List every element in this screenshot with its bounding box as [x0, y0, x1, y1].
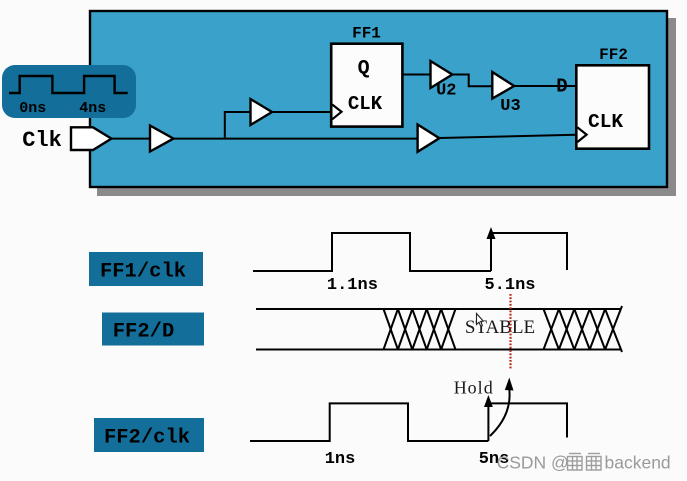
svg-text:CLK: CLK	[588, 111, 623, 133]
watermark CSDN	[497, 453, 671, 473]
buffer U1c	[418, 125, 440, 152]
wire: U2 to U3	[452, 75, 492, 87]
svg-text:5.1ns: 5.1ns	[484, 276, 535, 295]
buffer U3	[492, 72, 514, 99]
svg-text:U3: U3	[500, 97, 520, 116]
wire: Clk port to buffer U1a	[111, 138, 150, 140]
waveform FF2/clk	[250, 403, 488, 441]
buffer U2	[431, 61, 453, 88]
svg-text:FF2: FF2	[599, 46, 628, 64]
svg-text:STABLE: STABLE	[465, 317, 535, 338]
hold curved arrow	[490, 378, 514, 437]
input port Clk (pentagon)	[71, 127, 111, 150]
chip boundary box	[90, 11, 667, 187]
FF2/clk rising edge arrow at 5ns	[484, 395, 493, 441]
waveform FF2/clk high tail	[488, 403, 567, 437]
svg-text:Q: Q	[358, 58, 370, 81]
buffer U1b	[251, 99, 273, 125]
FF2/D crosshatch section 1	[0, 0, 1, 1]
svg-text:1ns: 1ns	[325, 450, 356, 469]
svg-text:Hold: Hold	[454, 378, 494, 398]
flip-flop FF2	[576, 65, 649, 148]
wire: branch up to buffer U1b	[225, 112, 251, 139]
svg-text:4ns: 4ns	[79, 100, 106, 117]
FF2 clock wedge	[577, 127, 586, 142]
waveform FF2/D rails	[256, 309, 621, 350]
wire: FF1 Q to buffer U2	[402, 74, 430, 76]
svg-text:FF2/D: FF2/D	[113, 321, 175, 344]
svg-text:D: D	[556, 76, 567, 98]
wire: U3 to FF2 D	[514, 85, 576, 87]
signal label FF1/clk	[89, 252, 203, 286]
FF1/clk rising edge arrow at 5.1ns	[487, 227, 496, 271]
svg-text:backend: backend	[605, 453, 671, 473]
waveform FF1/clk high tail	[491, 233, 567, 270]
buffer U1a	[150, 126, 174, 152]
svg-text:0ns: 0ns	[19, 100, 46, 117]
wire: buffer U1c to FF2 CLK	[439, 135, 576, 138]
clock source waveform	[9, 76, 128, 93]
wire: buffer U1b to FF1 CLK	[272, 111, 332, 113]
FF2/D crosshatch section 2	[544, 306, 623, 352]
hold marker red dotted line	[509, 294, 511, 369]
svg-text:CLK: CLK	[348, 93, 383, 115]
svg-text:FF1/clk: FF1/clk	[100, 261, 186, 284]
signal label FF2/D	[102, 313, 204, 346]
FF1 clock wedge	[332, 105, 341, 120]
wire: main clock run	[174, 138, 418, 140]
flip-flop FF1	[331, 44, 402, 127]
signal label FF2/clk	[94, 418, 204, 452]
svg-text:CSDN @: CSDN @	[497, 453, 569, 473]
svg-text:1.1ns: 1.1ns	[327, 276, 378, 295]
chip boundary shadow	[97, 18, 676, 196]
waveform FF1/clk	[253, 233, 491, 271]
svg-text:U2: U2	[436, 82, 456, 101]
svg-text:Clk: Clk	[22, 128, 62, 153]
clock source box	[2, 65, 136, 118]
svg-text:FF1: FF1	[352, 25, 381, 43]
svg-text:FF2/clk: FF2/clk	[104, 427, 190, 450]
mouse cursor	[477, 314, 484, 327]
